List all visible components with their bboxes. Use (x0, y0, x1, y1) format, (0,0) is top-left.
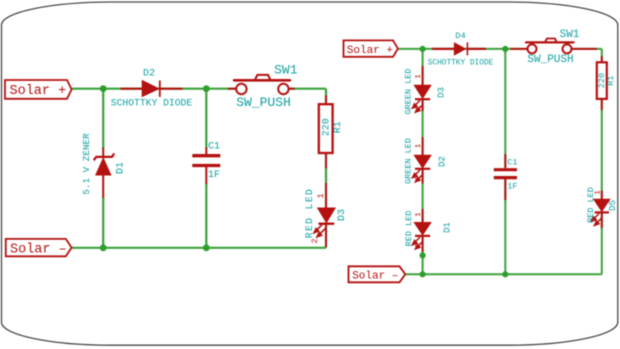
svg-text:1: 1 (316, 193, 326, 198)
junction (206,88.7) (203, 85, 210, 92)
junction (504.8,48.9) (502, 46, 508, 52)
wire: left cap column x=206 (205, 89, 207, 149)
global label Solar - (right) (349, 266, 406, 282)
wire: left bottom rail (72, 247, 326, 249)
junction (206,247.8) (203, 244, 210, 251)
global label Solar + (right) (344, 40, 398, 56)
capacitor C1 (right) (494, 154, 517, 200)
junction (103,247.8) (100, 244, 107, 251)
svg-text:GREEN LED: GREEN LED (404, 138, 414, 184)
svg-text:D3: D3 (437, 87, 447, 98)
svg-text:Solar +: Solar + (347, 45, 393, 57)
svg-text:2: 2 (415, 105, 423, 110)
wire: right top rail (398, 48, 528, 50)
svg-text:GREEN LED: GREEN LED (404, 69, 414, 115)
LED D2 (right, green led 2) (412, 137, 431, 184)
capacitor C1 (left) (192, 148, 220, 185)
svg-text:D2: D2 (143, 69, 155, 80)
svg-text:SW1: SW1 (274, 62, 298, 77)
svg-text:D5: D5 (608, 200, 618, 211)
svg-text:5.1 V ZENER: 5.1 V ZENER (81, 133, 92, 195)
resistor R1 (right) (597, 56, 607, 110)
LED D5 (right, red) (591, 191, 609, 229)
svg-text:RED LED: RED LED (586, 187, 596, 223)
junction (103,88.7) (100, 85, 107, 92)
junction (505.3,274.3) (502, 271, 508, 277)
resistor R1 (left) (319, 95, 333, 168)
wire: right R1/LED column x=601.8 (601, 49, 603, 62)
global label Solar + (left) (5, 80, 72, 99)
svg-text:1F: 1F (507, 182, 517, 192)
svg-text:D4: D4 (455, 31, 465, 41)
svg-text:220: 220 (321, 118, 332, 136)
wire: LED string column x=422.6 (422, 49, 424, 85)
svg-text:2: 2 (415, 176, 423, 181)
svg-text:C1: C1 (507, 158, 517, 168)
svg-text:D3: D3 (337, 209, 348, 221)
svg-text:1F: 1F (208, 170, 220, 181)
wire: left R1/LED column x=326 (325, 89, 327, 105)
diode D2 (schottky) (121, 80, 183, 97)
svg-text:SW_PUSH: SW_PUSH (527, 54, 573, 66)
LED D3 (right, green led 1) (412, 66, 431, 112)
switch SW1 (left, SW_PUSH) (228, 75, 295, 94)
svg-text:Solar –: Solar – (352, 271, 398, 283)
zener diode D1 (94, 148, 115, 198)
switch SW1 (right, SW_PUSH) (510, 39, 597, 54)
wire: left top rail (72, 88, 237, 90)
svg-text:SCHOTTKY DIODE: SCHOTTKY DIODE (111, 97, 193, 108)
svg-text:1: 1 (415, 143, 423, 148)
svg-text:RED LED: RED LED (304, 188, 315, 239)
emission arrows (314, 224, 325, 237)
global label Solar - (left) (6, 239, 72, 258)
wire: zener column x=103 (102, 89, 104, 149)
svg-text:D2: D2 (437, 156, 447, 167)
svg-text:Solar –: Solar – (10, 242, 67, 257)
svg-text:C1: C1 (208, 141, 220, 152)
wire: right bottom rail (405, 273, 602, 275)
LED D3 (left, red) (314, 183, 335, 247)
svg-text:SCHOTTKY DIODE: SCHOTTKY DIODE (428, 59, 494, 67)
svg-text:D1: D1 (442, 222, 452, 233)
junction (422.6,274.3) (420, 271, 426, 277)
svg-text:1: 1 (415, 212, 423, 217)
svg-text:Solar +: Solar + (10, 84, 67, 99)
svg-text:SW_PUSH: SW_PUSH (236, 95, 291, 110)
svg-text:SW1: SW1 (560, 29, 580, 41)
svg-text:R1: R1 (333, 121, 344, 133)
diode D4 (schottky) (432, 42, 486, 55)
wire: right cap column x=505.3 (504, 49, 506, 167)
svg-text:RED LED: RED LED (404, 211, 414, 247)
svg-text:R1: R1 (606, 75, 616, 85)
svg-text:2: 2 (415, 243, 423, 248)
junction (422.6,48.9) (420, 46, 426, 52)
svg-text:D1: D1 (116, 162, 127, 174)
junction (422.6,255.4) (420, 252, 426, 258)
LED D1 (right, red led) (412, 209, 431, 252)
svg-text:1: 1 (415, 74, 423, 79)
